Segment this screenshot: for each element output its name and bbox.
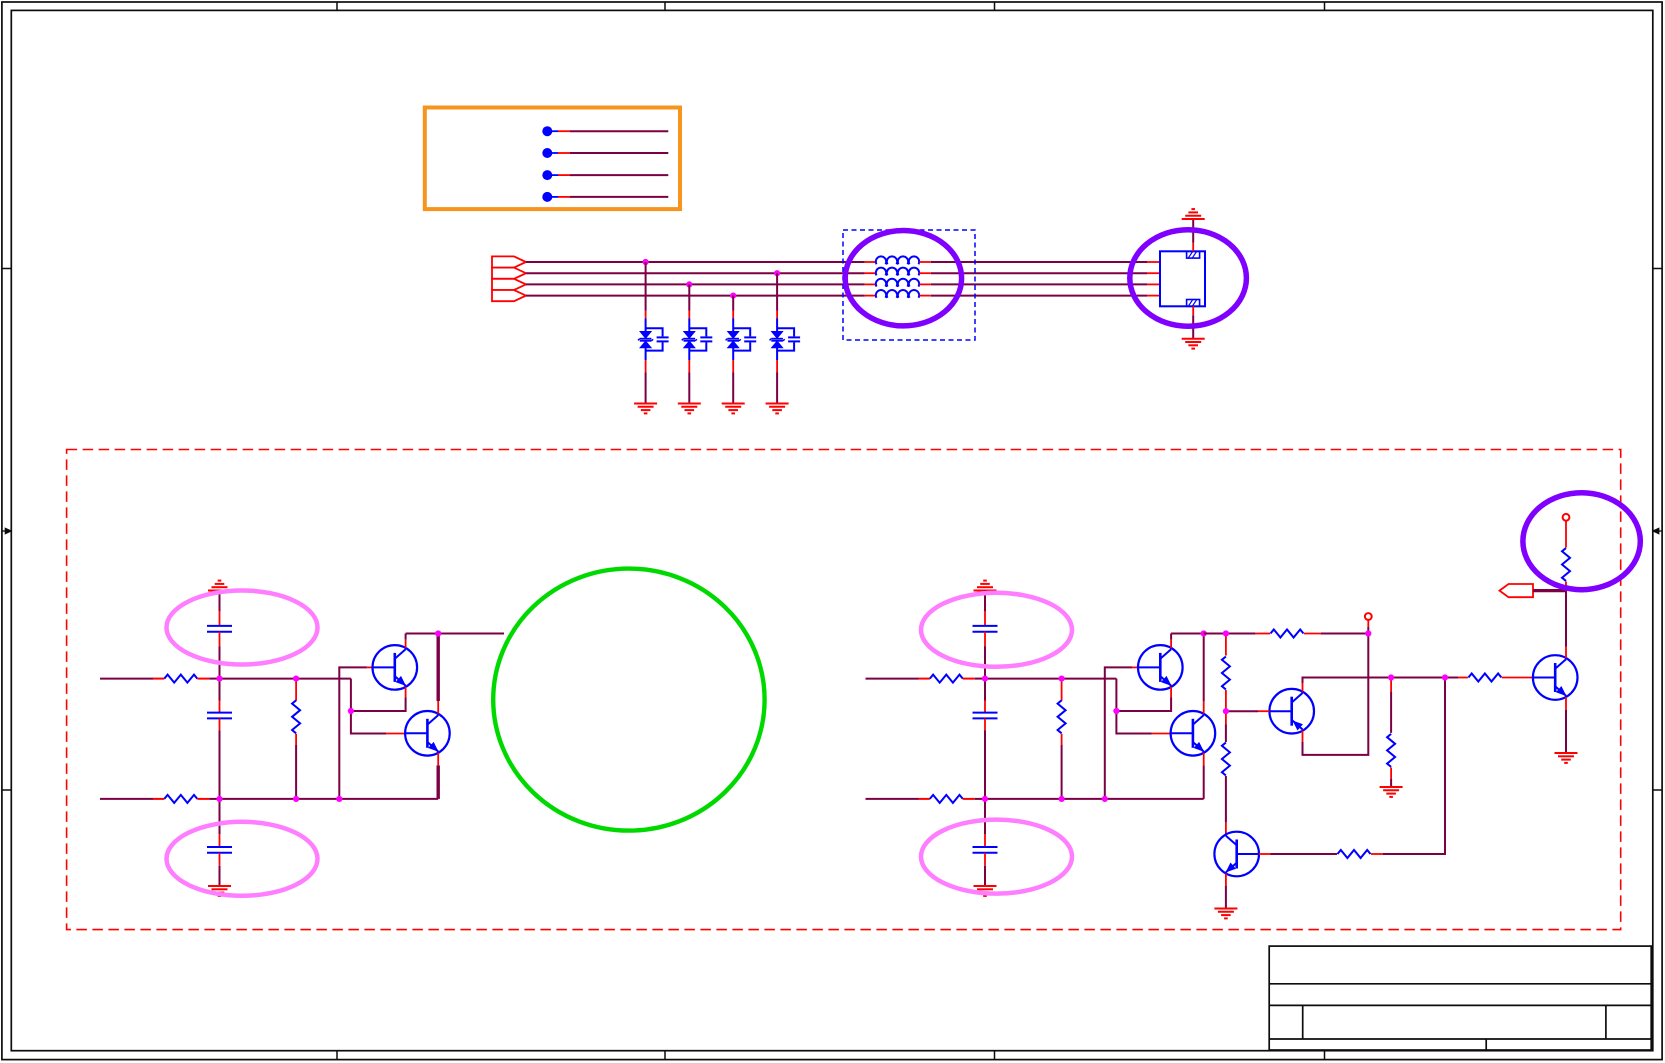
wire bus line 4 right segment [931, 295, 1147, 297]
wire bottom rail left [220, 798, 439, 800]
pink highlight ellipse right-top [921, 593, 1072, 667]
orange highlight box [425, 108, 680, 210]
junction dots right [982, 630, 1207, 802]
wire bus line 3 left segment [526, 283, 865, 285]
transistor Q-lower left (NPN) [405, 711, 450, 756]
no-connect net stub 2 with blue dot [542, 148, 668, 158]
wire bus line 4 left segment [526, 295, 865, 297]
TVS diode D3 with parallel capacitor and ground [726, 296, 757, 404]
input bus port arrows P1-P4 [492, 256, 526, 301]
junction bus line 3 [686, 281, 692, 287]
capacitor C-mid left [207, 679, 232, 799]
wire input bottom left [100, 798, 153, 800]
junction bus line 2 [774, 270, 780, 276]
transistor Q-lower right (NPN) [1171, 711, 1216, 756]
resistor R-shunt right [1058, 679, 1066, 799]
resistor chain lower (node to Q6 collector) [1222, 711, 1230, 834]
wire input top left [100, 678, 153, 680]
TVS diode D4 with parallel capacitor and ground [770, 273, 801, 403]
wire upper transistor base net right [1105, 667, 1133, 799]
junction bus line 4 [730, 293, 736, 299]
ground below connector [1182, 339, 1205, 349]
resistor R-in-top right [930, 675, 963, 683]
wire Q7 emitter to ground [1565, 697, 1567, 753]
resistor chain upper (rail to Q5 base node) [1222, 636, 1230, 711]
resistor R-Q7-base [1468, 674, 1501, 682]
connector J1 shield pin to ground (top) [1192, 219, 1194, 251]
zone ticks bottom border [337, 1051, 1325, 1060]
wire upper emitter to base divider right [1116, 687, 1171, 711]
red dashed region box [67, 450, 1621, 930]
wire bottom rail right [985, 798, 1204, 800]
TVS diode D1 with parallel capacitor and ground [638, 262, 669, 404]
resistor R-shunt left [292, 679, 300, 799]
wire Q6 base with resistor to output node [1259, 853, 1337, 855]
wire rail to lower collector right [1203, 634, 1205, 714]
wire collector rail left [406, 634, 504, 648]
wire bus line 2 left segment [526, 272, 865, 274]
capacitor C-mid right [973, 679, 998, 799]
resistor R-rail (to terminal) [1271, 630, 1304, 638]
port arrow (input port) [1500, 584, 1567, 597]
resistor R-gnd with ground (mid) [1387, 679, 1395, 787]
wire lower emitter to bottom rail left [437, 753, 439, 799]
resistor R-in-bottom left [164, 795, 197, 803]
transistor Q-upper right (NPN) [1138, 645, 1183, 690]
wire Q6 emitter to ground [1225, 874, 1227, 909]
ground below Q6 [1214, 909, 1237, 919]
wire upper transistor base net left [339, 667, 367, 799]
no-connect net stub 4 with blue dot [542, 192, 668, 202]
wire top rail extension right [1204, 633, 1256, 635]
ground bottom left [208, 886, 231, 896]
wire Q5 base [1226, 710, 1270, 712]
wire output node to Q7 base resistor [1445, 677, 1468, 679]
pink highlight ellipse left-top [167, 591, 318, 665]
wire input bottom right [866, 798, 919, 800]
resistor R-Q6-base [1338, 850, 1371, 858]
wire input to lower transistor base left [351, 679, 386, 734]
terminal open circle top-right [1563, 514, 1570, 521]
junction bus line 1 [643, 259, 649, 265]
wire input to lower transistor base right [1116, 679, 1151, 734]
wire collector rail right [1171, 634, 1204, 648]
connector J1 bottom mounting pad (hatched) [1187, 300, 1200, 307]
no-connect net stub 3 with blue dot [542, 170, 668, 180]
left border mid arrow [3, 528, 12, 534]
connector J1 body [1160, 251, 1205, 306]
no-connect net stub 1 with blue dot [542, 126, 668, 136]
wire top rail right [985, 678, 1116, 680]
wire Q6 base resistor to output node vertical [1371, 678, 1445, 855]
zone ticks top border [337, 2, 1325, 10]
purple highlight ellipse around connector [1130, 230, 1247, 327]
capacitor C-bottom right [973, 799, 998, 886]
zone ticks left border [2, 269, 11, 791]
zone ticks right border [1653, 269, 1662, 791]
wire lower emitter to bottom rail right [1203, 753, 1205, 799]
resistor R-in-top left [164, 675, 197, 683]
inductor L2 common-mode choke winding [865, 268, 931, 276]
wire rail to lower collector left [437, 634, 440, 714]
purple highlight ellipse around choke [845, 231, 961, 326]
pink highlight ellipse left-bottom [167, 822, 318, 896]
inductor L3 common-mode choke winding [865, 279, 931, 287]
transistor Q-upper left (NPN) [373, 645, 418, 690]
pink highlight ellipse right-bottom [921, 820, 1072, 894]
wire bus line 1 right segment [931, 261, 1147, 263]
capacitor C-bottom left [207, 799, 232, 886]
connector J1 shield pin to ground (bottom) [1192, 306, 1194, 338]
terminal open circle on rail [1365, 613, 1372, 633]
inductor L4 common-mode choke winding [865, 290, 931, 298]
junction dots right extra [1223, 630, 1448, 714]
resistor R-in-bottom right [930, 795, 963, 803]
junction dots left [216, 630, 441, 802]
transistor Q7 (NPN output) [1533, 655, 1578, 700]
resistor R-top-right (in purple ellipse) [1562, 521, 1570, 591]
transistor Q6 (NPN mirrored) [1214, 832, 1259, 877]
capacitor C-top right [973, 591, 998, 679]
ground below Q7 [1555, 753, 1578, 763]
ground top (flipped) right [974, 581, 997, 591]
ground bottom right [974, 886, 997, 896]
ground top (flipped) left [208, 581, 231, 591]
TVS diode D2 with parallel capacitor and ground [682, 284, 713, 403]
connector J1 top mounting pad (hatched) [1187, 251, 1200, 258]
wire bus line 1 left segment [526, 261, 865, 263]
wire bus line 3 right segment [931, 283, 1147, 285]
wire input top right [866, 678, 919, 680]
wire top rail left [220, 678, 351, 680]
capacitor C-top left [207, 591, 232, 679]
wire Q5 emitter loop to rail [1303, 634, 1369, 755]
transistor Q5 (PNP) [1269, 689, 1314, 734]
title block [1269, 946, 1651, 1050]
wire Q7 collector net [1565, 591, 1567, 658]
ground above connector (flipped) [1182, 209, 1205, 219]
ground mid-right [1380, 787, 1403, 797]
right border mid arrow [1653, 528, 1662, 534]
inductor L1 common-mode choke winding [865, 256, 931, 264]
blue dashed box around choke [843, 230, 975, 340]
purple highlight ellipse top-right [1523, 493, 1640, 590]
green highlight circle [493, 569, 764, 831]
wire upper emitter to base divider left [351, 687, 406, 711]
wire bus line 2 right segment [931, 272, 1147, 274]
wire Q5 collector to output node [1303, 678, 1446, 692]
